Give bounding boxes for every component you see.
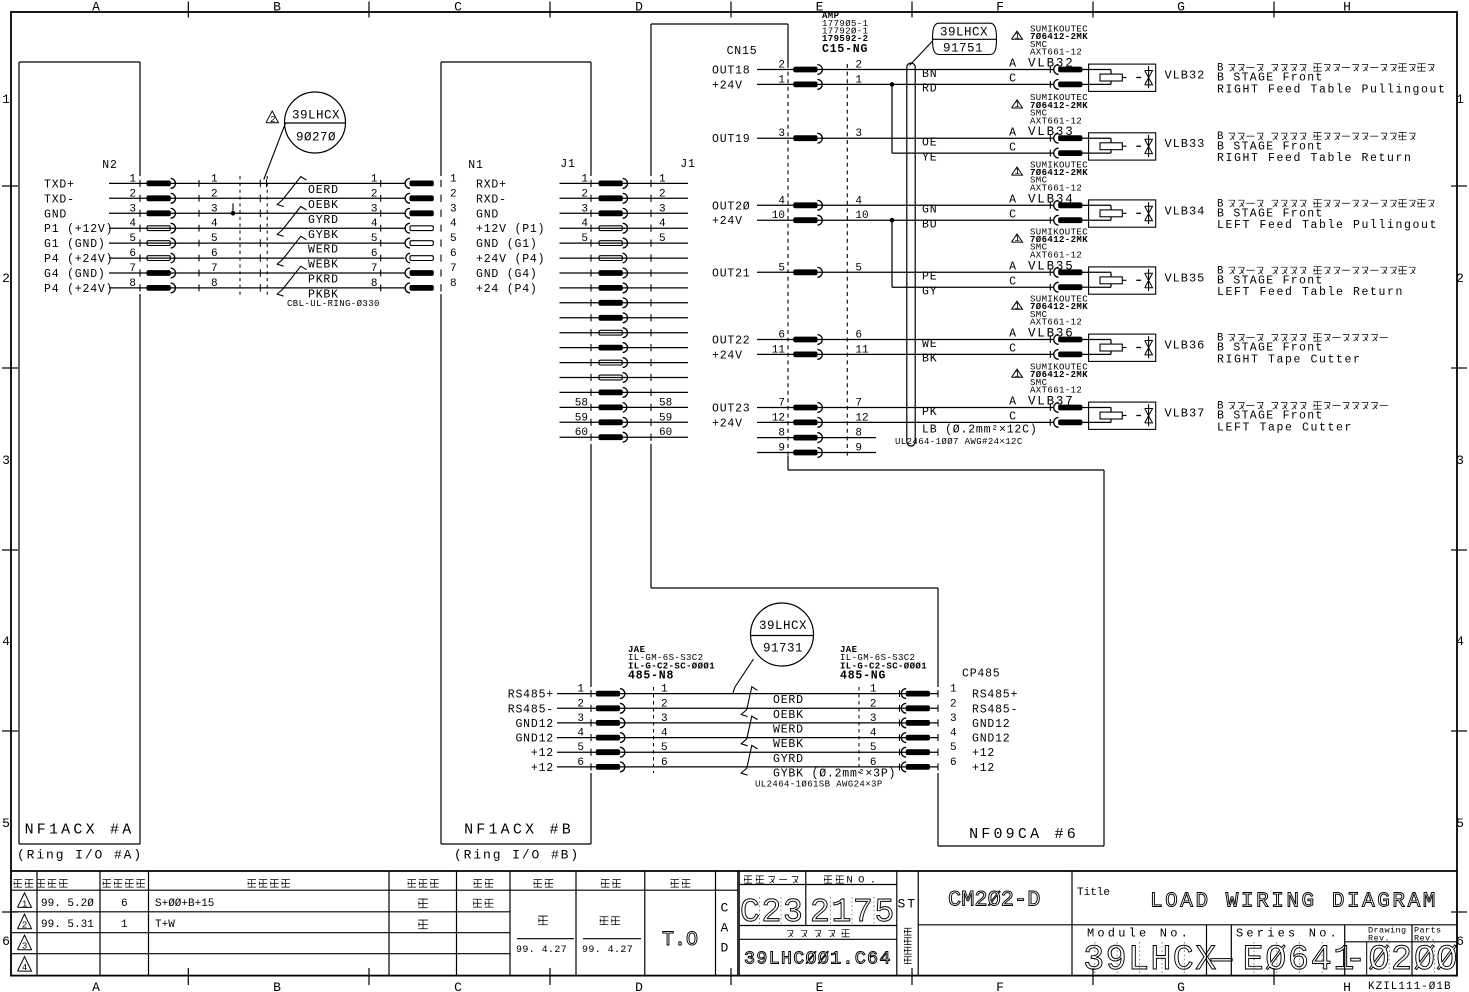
svg-text:5: 5: [211, 233, 218, 245]
svg-text:3: 3: [661, 713, 668, 725]
wire J1 pin 60 jumper: [560, 427, 689, 442]
wire +24V feed to VLB35 C: [891, 220, 893, 287]
contact VLB35 pin C: [1050, 282, 1088, 292]
svg-text:A: A: [92, 980, 102, 992]
svg-text:RXD+: RXD+: [476, 178, 507, 191]
svg-text:BN: BN: [922, 68, 937, 81]
svg-text:OUT18: OUT18: [712, 65, 751, 78]
svg-text:6: 6: [577, 757, 584, 769]
wire CN15 pin 5: [712, 262, 1054, 280]
wire J1 pin 14 jumper: [560, 373, 689, 383]
svg-text:5: 5: [661, 742, 668, 754]
svg-text:9: 9: [1106, 940, 1127, 980]
svg-text:11: 11: [855, 344, 869, 356]
svg-text:59: 59: [659, 412, 672, 424]
svg-text:2: 2: [661, 698, 668, 710]
svg-text:A: A: [1009, 396, 1017, 409]
revision row2 author: [418, 920, 428, 929]
svg-text:F: F: [996, 980, 1006, 992]
svg-text:GND12: GND12: [515, 718, 554, 731]
wire N2 pin 3 to N1 pin 3 (GND): [44, 203, 499, 221]
junction dot +24V pin1: [890, 82, 895, 87]
wire J1 pin 8 jumper: [560, 283, 689, 293]
svg-text:CN15: CN15: [727, 45, 758, 58]
cable sheath LB oval: [907, 63, 915, 446]
svg-text:2: 2: [371, 188, 378, 200]
svg-text:60: 60: [659, 427, 672, 439]
svg-text:4: 4: [1311, 940, 1332, 980]
svg-text:6: 6: [661, 757, 668, 769]
svg-text:5: 5: [2, 816, 12, 831]
solenoid load VLB32: [1089, 64, 1156, 91]
svg-text:4: 4: [659, 218, 666, 230]
twisted pair mark GYRD/GYBK: [741, 745, 757, 775]
svg-text:7: 7: [371, 263, 378, 275]
svg-text:9: 9: [855, 443, 862, 455]
grid row numbers left: [2, 92, 12, 949]
table header kenzu: [601, 880, 609, 888]
revision triangle 3: [18, 935, 32, 950]
table header sekkei: [534, 880, 542, 888]
revision triangle 2: [18, 914, 32, 929]
svg-text:1: 1: [870, 684, 877, 696]
svg-text:T.O: T.O: [662, 929, 698, 952]
svg-text:GND (G4): GND (G4): [476, 268, 538, 281]
wire CN15 pin 2: [712, 60, 1054, 78]
grid column ticks bottom: [188, 968, 1274, 985]
wire CN15 pin 6: [712, 330, 1054, 348]
svg-text:5: 5: [855, 262, 862, 274]
svg-text:A: A: [1009, 194, 1017, 207]
svg-text:N1: N1: [468, 159, 483, 172]
svg-text:—: —: [1210, 940, 1233, 980]
svg-text:+12V (P1): +12V (P1): [476, 223, 545, 236]
svg-text:6: 6: [211, 248, 218, 260]
svg-text:4: 4: [870, 728, 877, 740]
svg-text:39LHCX: 39LHCX: [759, 619, 807, 633]
svg-text:OUT19: OUT19: [712, 133, 751, 146]
svg-text:C: C: [1009, 275, 1017, 288]
svg-text:2: 2: [2, 271, 12, 286]
twisted pair mark OERD/OEBK: [741, 687, 757, 717]
grid row numbers right: [1456, 92, 1466, 949]
svg-text:P1 (+12V): P1 (+12V): [44, 223, 113, 236]
wire J1 pin 2 jumper: [560, 188, 689, 203]
contact VLB35 pin A: [1050, 267, 1088, 277]
wire N2 pin 6 to N1 pin 6 (P4 (+24V)): [44, 248, 545, 266]
svg-text:RS485+: RS485+: [972, 689, 1018, 702]
table header fugou: [14, 880, 22, 888]
svg-text:5: 5: [450, 233, 457, 245]
revision triangle 2 (top left): [266, 111, 279, 123]
svg-text:5: 5: [129, 233, 136, 245]
wire CN15 pin 12: [712, 412, 1054, 430]
twisted pair mark WERD/WEBK: [277, 236, 306, 266]
svg-text:2: 2: [1391, 940, 1412, 980]
svg-text:4: 4: [22, 963, 28, 973]
junction dot +24V pin10: [890, 218, 895, 223]
twisted pair mark OERD/OEBK: [277, 177, 306, 207]
table header kaitei-sha: [408, 880, 416, 888]
svg-text:1: 1: [1014, 167, 1020, 177]
svg-text:E: E: [1243, 940, 1264, 980]
svg-text:VLB32: VLB32: [1165, 69, 1206, 83]
svg-text:+24V: +24V: [712, 417, 743, 430]
svg-text:A: A: [1009, 126, 1017, 139]
svg-text:TXD-: TXD-: [44, 193, 75, 206]
svg-text:1: 1: [1014, 100, 1020, 110]
svg-text:1: 1: [577, 684, 584, 696]
svg-text:60: 60: [575, 427, 588, 439]
svg-text:F: F: [996, 0, 1006, 15]
svg-text:A: A: [1009, 58, 1017, 71]
svg-text:4: 4: [577, 728, 584, 740]
svg-text:99. 4.27: 99. 4.27: [516, 945, 567, 956]
table header ken-in: [474, 880, 482, 888]
svg-text:5: 5: [371, 233, 378, 245]
contact VLB33 pin C: [1050, 148, 1088, 158]
svg-text:Ø: Ø: [1414, 940, 1435, 980]
svg-text:UL2464-1ØØ7 AWG#24×12C: UL2464-1ØØ7 AWG#24×12C: [895, 437, 1023, 447]
revision balloon 39LHCX/91731: [751, 603, 814, 666]
svg-text:2: 2: [450, 188, 457, 200]
svg-text:KZIL111-Ø1B: KZIL111-Ø1B: [1368, 981, 1452, 992]
svg-text:2175: 2175: [810, 894, 896, 931]
svg-text:D: D: [635, 0, 645, 15]
svg-text:VLB33: VLB33: [1165, 137, 1206, 151]
svg-text:G4 (GND): G4 (GND): [44, 268, 106, 281]
solenoid load VLB35: [1089, 267, 1156, 294]
svg-text:Ø: Ø: [1265, 940, 1286, 980]
grid row ticks right: [1451, 186, 1467, 912]
contact VLB33 pin A: [1050, 133, 1088, 143]
svg-text:-: -: [1345, 940, 1366, 980]
svg-text:3: 3: [659, 203, 666, 215]
svg-text:C: C: [1009, 411, 1017, 424]
svg-text:J1: J1: [560, 158, 575, 171]
svg-text:Title: Title: [1077, 887, 1110, 899]
wire J1 pin 1 jumper: [560, 173, 689, 188]
svg-text:GND (G1): GND (G1): [476, 238, 538, 251]
svg-text:+12: +12: [531, 762, 554, 775]
svg-text:WEBK: WEBK: [773, 738, 804, 751]
svg-text:WEBK: WEBK: [308, 259, 339, 272]
svg-text:2: 2: [659, 188, 666, 200]
svg-text:LEFT Feed Table Pullingout: LEFT Feed Table Pullingout: [1217, 219, 1438, 232]
svg-text:PKRD: PKRD: [308, 274, 339, 287]
contact VLB32 pin C: [1050, 80, 1088, 90]
svg-text:8: 8: [211, 278, 218, 290]
contact VLB34 pin A: [1050, 200, 1088, 210]
svg-text:+12: +12: [972, 762, 995, 775]
svg-text:2: 2: [270, 115, 276, 125]
svg-text:1: 1: [1014, 31, 1020, 41]
svg-text:12: 12: [855, 412, 868, 424]
part flag 39LHCX/91751: [933, 23, 997, 55]
leader end tick: [266, 180, 268, 187]
part labels SUMIKOUTEC/SMC for VLB37: [1012, 363, 1089, 396]
svg-text:7: 7: [450, 263, 457, 275]
svg-text:6: 6: [1288, 940, 1309, 980]
svg-text:+24V: +24V: [712, 215, 743, 228]
wire RS485 bus pin 1 (RS485+): [508, 684, 1018, 702]
svg-text:99. 4.27: 99. 4.27: [582, 945, 633, 956]
svg-text:+12: +12: [531, 747, 554, 760]
svg-text:485-NG: 485-NG: [840, 670, 886, 683]
svg-text:VLB37: VLB37: [1165, 407, 1206, 421]
svg-text:9Ø27Ø: 9Ø27Ø: [296, 131, 336, 145]
svg-text:4: 4: [450, 218, 457, 230]
svg-text:6: 6: [129, 248, 136, 260]
svg-text:4: 4: [211, 218, 218, 230]
wire J1 pin 13 jumper: [560, 358, 689, 368]
table header nengappi: [37, 880, 45, 888]
svg-text:11: 11: [772, 344, 786, 356]
unit box NF1ACX #A: [19, 62, 140, 844]
contact VLB32 pin A: [1050, 65, 1088, 75]
wire N2 pin 7 to N1 pin 7 (G4 (GND)): [44, 263, 538, 281]
svg-text:2: 2: [1456, 271, 1466, 286]
svg-text:P4 (+24V): P4 (+24V): [44, 283, 113, 296]
svg-text:WERD: WERD: [308, 244, 339, 257]
wire RS485 bus pin 4 (GND12): [515, 728, 1010, 746]
svg-text:3: 3: [950, 713, 957, 725]
grid row ticks left: [2, 186, 18, 912]
svg-text:VLB35: VLB35: [1165, 271, 1206, 285]
wire RS485 bus pin 5 (+12): [531, 742, 995, 760]
svg-text:485-N8: 485-N8: [628, 670, 674, 683]
svg-text:8: 8: [450, 278, 457, 290]
svg-text:RD: RD: [922, 83, 937, 96]
svg-text:GYBK: GYBK: [308, 229, 339, 242]
svg-text:TXD+: TXD+: [44, 178, 75, 191]
svg-text:NF1ACX #B: NF1ACX #B: [464, 822, 574, 839]
svg-text:58: 58: [659, 397, 672, 409]
balloon 91731 leader: [733, 659, 754, 693]
wire CN15 pin 8: [757, 428, 876, 443]
svg-text:3: 3: [2, 453, 12, 468]
svg-text:2: 2: [22, 921, 28, 931]
cable boundary dashes (N2 side): [239, 176, 241, 295]
svg-text:NO.: NO.: [846, 875, 881, 887]
svg-text:ST: ST: [898, 897, 917, 912]
svg-text:1: 1: [371, 173, 378, 185]
wire J1 pin 3 jumper: [560, 203, 689, 218]
svg-text:NF09CA #6: NF09CA #6: [969, 826, 1079, 843]
wire J1 pin 10 jumper: [560, 313, 689, 323]
svg-text:1: 1: [1014, 234, 1020, 244]
header bukacode: [744, 876, 752, 883]
svg-text:OERD: OERD: [773, 694, 804, 707]
svg-text:4: 4: [950, 728, 957, 740]
wire RS485 bus pin 2 (RS485-): [508, 698, 1018, 716]
svg-text:G1 (GND): G1 (GND): [44, 238, 106, 251]
svg-text:RS485+: RS485+: [508, 689, 554, 702]
svg-text:6: 6: [371, 248, 378, 260]
svg-text:OUT21: OUT21: [712, 267, 751, 280]
revision balloon 39LHCX/90270: [285, 92, 346, 153]
svg-text:1: 1: [581, 173, 588, 185]
contact VLB37 pin A: [1050, 403, 1088, 413]
svg-text:LB (Ø.2mm²×12C): LB (Ø.2mm²×12C): [922, 424, 1038, 437]
grid column letters top: [92, 0, 1353, 15]
svg-text:BU: BU: [922, 219, 937, 232]
revision triangle 4: [18, 957, 32, 972]
svg-text:Ø: Ø: [1369, 940, 1390, 980]
svg-text:4: 4: [778, 195, 785, 207]
svg-text:99. 5.2Ø: 99. 5.2Ø: [41, 898, 94, 910]
svg-text:A: A: [92, 0, 102, 15]
revision table grid: [11, 871, 1457, 976]
svg-text:RXD-: RXD-: [476, 193, 507, 206]
svg-text:5: 5: [659, 233, 666, 245]
check signature: [600, 917, 609, 925]
flag leader line: [910, 41, 934, 66]
wire RS485 bus pin 3 (GND12): [515, 713, 1010, 731]
solenoid load VLB37: [1089, 402, 1156, 429]
svg-text:1: 1: [121, 919, 128, 931]
svg-text:N2: N2: [102, 159, 117, 172]
svg-text:2: 2: [577, 698, 584, 710]
svg-text:RIGHT Feed Table Pullingout: RIGHT Feed Table Pullingout: [1217, 83, 1447, 96]
svg-text:10: 10: [772, 210, 785, 222]
svg-text:C: C: [1173, 940, 1194, 980]
svg-text:3: 3: [855, 128, 862, 140]
svg-text:RS485-: RS485-: [972, 703, 1018, 716]
svg-text:OUT22: OUT22: [712, 335, 751, 348]
svg-text:2: 2: [211, 188, 218, 200]
svg-text:5: 5: [870, 742, 877, 754]
svg-text:CP485: CP485: [962, 668, 1001, 681]
svg-text:(Ring I/O #B): (Ring I/O #B): [454, 848, 580, 863]
wire N2 pin 4 to N1 pin 4 (P1 (+12V)): [44, 218, 545, 236]
svg-text:1: 1: [1014, 369, 1020, 379]
svg-text:G: G: [1177, 0, 1187, 15]
svg-text:5: 5: [577, 742, 584, 754]
svg-text:YE: YE: [922, 151, 937, 164]
svg-text:1: 1: [778, 74, 785, 86]
svg-text:OEBK: OEBK: [773, 709, 804, 722]
svg-text:6: 6: [950, 757, 957, 769]
control number C23 2175: [740, 894, 896, 931]
svg-text:3: 3: [371, 203, 378, 215]
svg-text:J1: J1: [680, 158, 695, 171]
part labels SUMIKOUTEC/SMC for VLB33: [1012, 93, 1089, 126]
wire CN15 pin 7: [712, 398, 1054, 416]
wire CN15 pin 1: [712, 74, 1054, 92]
svg-text:D: D: [721, 941, 731, 956]
svg-text:4: 4: [661, 728, 668, 740]
svg-text:6: 6: [2, 934, 12, 949]
svg-text:GND12: GND12: [515, 733, 554, 746]
svg-text:9: 9: [778, 443, 785, 455]
svg-text:3: 3: [577, 713, 584, 725]
part labels SUMIKOUTEC/SMC for VLB32: [1012, 25, 1089, 58]
svg-text:2: 2: [778, 60, 785, 72]
contact VLB34 pin C: [1050, 215, 1088, 225]
part labels SUMIKOUTEC/SMC for VLB35: [1012, 227, 1089, 260]
svg-text:3: 3: [1083, 940, 1104, 980]
wire J1 pin 5 jumper: [560, 233, 689, 248]
svg-text:39LHCX: 39LHCX: [940, 26, 988, 40]
svg-text:RS485-: RS485-: [508, 703, 554, 716]
wire CN15 pin 3: [712, 128, 1054, 146]
svg-text:RIGHT Feed Table Return: RIGHT Feed Table Return: [1217, 152, 1413, 165]
svg-text:GYRD: GYRD: [773, 753, 804, 766]
svg-text:3: 3: [211, 203, 218, 215]
svg-text:1: 1: [2, 92, 12, 107]
svg-text:OUT23: OUT23: [712, 403, 751, 416]
svg-text:WERD: WERD: [773, 724, 804, 737]
svg-text:4: 4: [2, 634, 12, 649]
wire J1 pin 15 jumper: [560, 388, 689, 398]
svg-text:T+W: T+W: [155, 919, 175, 931]
svg-text:10: 10: [855, 210, 868, 222]
wire J1 pin 9 jumper: [560, 298, 689, 308]
svg-text:39LHCØØ1.C64: 39LHCØØ1.C64: [744, 949, 892, 970]
connector C15-NG part labels: [822, 11, 868, 56]
svg-text:VLB34: VLB34: [1165, 204, 1206, 218]
svg-text:RIGHT Tape Cutter: RIGHT Tape Cutter: [1217, 353, 1362, 366]
svg-text:LEFT Tape Cutter: LEFT Tape Cutter: [1217, 421, 1353, 434]
svg-text:4: 4: [855, 195, 862, 207]
svg-text:B: B: [273, 980, 283, 992]
svg-text:1: 1: [129, 173, 136, 185]
svg-text:G: G: [1177, 980, 1187, 992]
table header kaitei-riyu: [248, 880, 256, 888]
unit box NF1ACX #B: [441, 62, 591, 844]
wire J1 pin 11 jumper: [560, 328, 689, 338]
twisted pair mark PKRD/PKBK: [277, 266, 306, 296]
svg-text:99. 5.31: 99. 5.31: [41, 919, 94, 931]
header filename: [787, 930, 793, 937]
connector 485-N8 boundary: [653, 687, 655, 773]
svg-text:3: 3: [22, 942, 28, 952]
svg-text:3: 3: [1456, 453, 1466, 468]
table header kaitei-kaisu: [103, 880, 111, 888]
wire CN15 pin 9: [757, 443, 876, 458]
svg-text:CM2Ø2-D: CM2Ø2-D: [948, 888, 1040, 913]
svg-text:5: 5: [778, 262, 785, 274]
grid column ticks top: [188, 2, 1274, 18]
svg-text:P4 (+24V): P4 (+24V): [44, 253, 113, 266]
svg-text:91731: 91731: [763, 642, 803, 656]
wire CN15 pin 4: [712, 195, 1054, 213]
svg-text:6: 6: [121, 898, 128, 910]
svg-text:2: 2: [870, 698, 877, 710]
svg-text:3: 3: [778, 128, 785, 140]
svg-text:+12: +12: [972, 747, 995, 760]
table header shounin: [671, 880, 679, 888]
svg-text:PE: PE: [922, 271, 937, 284]
svg-text:OUT2Ø: OUT2Ø: [712, 200, 751, 213]
design signature: [538, 916, 548, 925]
svg-text:4: 4: [581, 218, 588, 230]
svg-text:LEFT Feed Table Return: LEFT Feed Table Return: [1217, 286, 1404, 299]
wire J1 pin 7 jumper: [560, 268, 689, 278]
wire N2 pin 2 to N1 pin 2 (TXD-): [44, 188, 507, 206]
svg-text:B: B: [273, 0, 283, 15]
svg-text:BK: BK: [922, 353, 937, 366]
svg-text:GN: GN: [922, 204, 937, 217]
twisted pair mark GYRD/GYBK: [277, 207, 306, 237]
cable boundary dashes (mid): [266, 176, 268, 295]
svg-text:3: 3: [581, 203, 588, 215]
svg-text:C: C: [1009, 343, 1017, 356]
svg-text:4: 4: [1456, 634, 1466, 649]
wire J1 pin 59 jumper: [560, 412, 689, 427]
svg-text:OEBK: OEBK: [308, 199, 339, 212]
